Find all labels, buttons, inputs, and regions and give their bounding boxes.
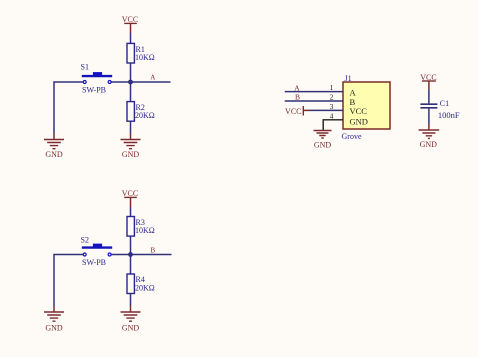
connector J1 body bbox=[343, 82, 390, 129]
svg-text:A: A bbox=[150, 73, 155, 81]
svg-text:B: B bbox=[150, 247, 155, 255]
svg-text:SW-PB: SW-PB bbox=[82, 86, 106, 95]
power symbol VCC at C1 bbox=[422, 81, 436, 90]
wire J1 pin 4 to GND bbox=[323, 120, 343, 130]
power symbol VCC bottom bbox=[124, 197, 137, 207]
junction dot node A bbox=[128, 80, 133, 85]
svg-text:1: 1 bbox=[330, 83, 334, 92]
svg-text:VCC: VCC bbox=[122, 189, 138, 198]
svg-text:3: 3 bbox=[330, 102, 334, 111]
svg-text:2: 2 bbox=[330, 93, 334, 102]
svg-text:10KΩ: 10KΩ bbox=[135, 226, 155, 235]
svg-text:GND: GND bbox=[122, 324, 140, 333]
wire VCC to C1 bbox=[428, 90, 430, 103]
svg-text:A: A bbox=[294, 83, 300, 92]
wire VCC to R1 bbox=[130, 33, 132, 43]
svg-text:VCC: VCC bbox=[285, 107, 301, 116]
wire R1 to R2 through node A bbox=[130, 63, 132, 102]
svg-text:S2: S2 bbox=[81, 236, 89, 245]
wire S2 to node B bbox=[110, 254, 131, 256]
ground symbol below R4 bbox=[121, 306, 141, 321]
svg-text:GND: GND bbox=[350, 116, 368, 126]
svg-text:Grove: Grove bbox=[342, 132, 362, 141]
svg-text:GND: GND bbox=[45, 324, 63, 333]
power symbol VCC top-left bbox=[124, 23, 137, 33]
wire S2 left terminal to left GND bbox=[54, 255, 85, 307]
wire S1 to node A bbox=[110, 81, 131, 83]
ground symbol at C1 bbox=[419, 124, 440, 138]
svg-text:GND: GND bbox=[122, 150, 140, 159]
wire R3 to R4 through node B bbox=[130, 236, 132, 274]
svg-text:20KΩ: 20KΩ bbox=[135, 284, 155, 293]
wire net B to J1 pin 2 bbox=[285, 100, 343, 102]
wire C1 to GND bbox=[428, 109, 430, 124]
resistor R2 bbox=[127, 102, 134, 122]
ground symbol left of S1 bbox=[44, 134, 64, 149]
svg-text:10KΩ: 10KΩ bbox=[135, 53, 155, 62]
switch S1 bbox=[82, 72, 112, 83]
svg-text:20KΩ: 20KΩ bbox=[135, 111, 155, 120]
wire node A to the right bbox=[131, 81, 171, 83]
svg-text:100nF: 100nF bbox=[438, 110, 460, 120]
ground symbol left of S2 bbox=[44, 306, 64, 321]
resistor R1 bbox=[127, 43, 134, 63]
resistor R4 bbox=[127, 274, 134, 294]
capacitor C1 bbox=[420, 104, 437, 108]
ground symbol at J1 pin 4 bbox=[314, 131, 332, 139]
ground symbol below R2 bbox=[121, 134, 141, 149]
switch S2 bbox=[82, 244, 112, 256]
svg-text:VCC: VCC bbox=[420, 73, 436, 82]
svg-text:VCC: VCC bbox=[122, 15, 138, 24]
wire VCC to J1 pin 3 bbox=[309, 109, 343, 111]
wire net A to J1 pin 1 bbox=[285, 91, 343, 93]
power symbol VCC at J1 pin 3 bbox=[303, 106, 309, 116]
svg-text:B: B bbox=[295, 92, 300, 101]
wire S1 left terminal to left GND bbox=[54, 82, 85, 134]
wire node B to the right bbox=[131, 254, 172, 256]
svg-text:VCC: VCC bbox=[350, 106, 368, 116]
svg-text:GND: GND bbox=[314, 141, 332, 150]
svg-text:S1: S1 bbox=[81, 63, 89, 72]
wire R2 to center GND bbox=[130, 121, 132, 133]
junction dot node B bbox=[128, 252, 133, 257]
svg-text:SW-PB: SW-PB bbox=[82, 258, 106, 267]
svg-text:4: 4 bbox=[330, 111, 334, 120]
svg-text:GND: GND bbox=[45, 150, 63, 159]
resistor R3 bbox=[127, 217, 134, 237]
wire VCC to R3 bbox=[130, 207, 132, 217]
svg-text:C1: C1 bbox=[440, 99, 449, 108]
svg-text:GND: GND bbox=[420, 140, 438, 149]
wire R4 to GND bbox=[130, 294, 132, 307]
